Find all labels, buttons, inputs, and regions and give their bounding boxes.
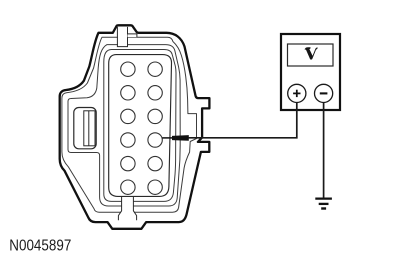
svg-text:N0045897: N0045897 — [9, 238, 71, 255]
